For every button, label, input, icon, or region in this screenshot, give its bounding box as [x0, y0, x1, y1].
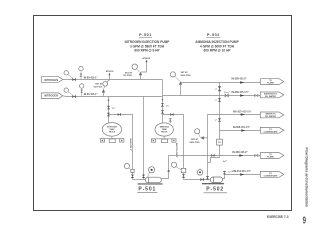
strainer box 1: [131, 169, 134, 172]
wire L1 drop to tank fill: [162, 80, 164, 123]
instrument PI-2: [64, 88, 73, 95]
nitrogen tank truck: [100, 123, 125, 143]
svg-text:FO: FO: [218, 142, 221, 144]
svg-text:DIL WATER: DIL WATER: [265, 95, 276, 98]
wire below strainer 2: [183, 173, 185, 180]
relief valve PSV-1 on L1: [123, 60, 148, 80]
ammonia tank truck: [151, 123, 176, 143]
title block P-501: [125, 32, 171, 52]
svg-text:1½": 1½": [112, 106, 116, 110]
svg-text:TRUCK: TRUCK: [161, 132, 168, 134]
svg-text:P-501: P-501: [138, 186, 156, 192]
valve on branch 2: [170, 113, 173, 116]
valve on tank drop 1a: [107, 106, 110, 109]
svg-text:DIL WATER: DIL WATER: [265, 115, 276, 118]
off-page connector NITROGEN 2: [41, 93, 63, 99]
wire pump1 discharge riser: [161, 156, 168, 179]
flow arrow R4: [241, 129, 245, 132]
svg-text:¾": ¾": [215, 88, 218, 91]
flow arrow R6: [240, 173, 244, 176]
drain dot on riser: [168, 170, 170, 172]
reducer before R2: [255, 94, 258, 97]
junction bead: [108, 99, 110, 101]
svg-text:2x1": 2x1": [223, 161, 227, 163]
svg-text:IN-308-415-2": IN-308-415-2": [232, 151, 247, 154]
svg-text:AM-213-415-1½": AM-213-415-1½": [232, 169, 251, 173]
instrument PI-1: [64, 71, 73, 78]
svg-text:150 PSIG: 150 PSIG: [123, 75, 132, 77]
connector WATER TO DIL WATER R3: [260, 112, 284, 118]
svg-text:5800 PSIG: 5800 PSIG: [181, 75, 192, 77]
connector TO CONDENSATE R6: [260, 172, 284, 178]
svg-text:FLARE: FLARE: [267, 156, 274, 159]
svg-text:1½": 1½": [166, 103, 170, 107]
svg-text:IN-80-415-1": IN-80-415-1": [84, 77, 98, 80]
valve at pump1 suction: [142, 175, 145, 178]
svg-text:WA-327-415-1½": WA-327-415-1½": [233, 109, 252, 113]
connector TO FLARE R5: [260, 153, 284, 159]
svg-text:ATMOS: ATMOS: [142, 57, 150, 60]
svg-text:IN-80-415-1": IN-80-415-1": [84, 93, 98, 96]
restriction orifice FO box: [217, 139, 223, 145]
tank2 second nozzle: [169, 118, 172, 123]
svg-text:600 RPM @ 8 HP: 600 RPM @ 8 HP: [134, 48, 160, 52]
flow arrow R1: [240, 81, 244, 84]
valve on flare line R5: [211, 154, 214, 157]
valve on tank drop 1b: [107, 113, 110, 116]
header valve b: [218, 98, 221, 101]
wire pump1 suction drop: [143, 97, 145, 180]
wire branch tank1 to pump1: [109, 115, 133, 180]
pump P-501: [138, 177, 163, 184]
svg-text:IN-308-415-1½": IN-308-415-1½": [232, 90, 249, 94]
wire main line L1: [63, 79, 163, 81]
header valve a: [218, 86, 221, 91]
flow arrow R2: [240, 94, 244, 97]
svg-text:P-501: P-501: [139, 32, 152, 37]
valve below strainer 2: [182, 174, 185, 177]
motor M-1: [147, 167, 154, 178]
wire branch tank2 to pump2: [163, 115, 184, 169]
valve V1 on L1: [72, 78, 76, 81]
svg-text:SET AT: SET AT: [95, 83, 103, 86]
svg-text:Flow Diagrams and Instrumentat: Flow Diagrams and Instrumentation: [305, 148, 309, 208]
svg-text:P-502: P-502: [207, 32, 220, 37]
connector TO CONDENSATE R4: [260, 127, 284, 133]
sheet border frame: [34, 16, 292, 211]
svg-text:CONDENSATE: CONDENSATE: [264, 175, 279, 178]
wire condensate line R4: [220, 130, 261, 132]
wire pump2 suction header: [184, 179, 211, 181]
wire drop to nitrogen tank truck: [108, 97, 110, 123]
svg-text:AM-213-415-1": AM-213-415-1": [175, 143, 178, 158]
svg-text:1½x¾": 1½x¾": [224, 90, 230, 94]
distribution header: [208, 83, 220, 163]
svg-text:NITROGEN: NITROGEN: [44, 78, 58, 82]
wire pump1 suction header: [133, 179, 146, 181]
svg-text:P-502: P-502: [206, 186, 224, 192]
svg-text:EXERCISE 7-3: EXERCISE 7-3: [267, 215, 289, 219]
pump label P-501: [137, 186, 157, 192]
svg-text:ATMOS: ATMOS: [106, 70, 114, 73]
svg-text:AMMONIA TO: AMMONIA TO: [264, 92, 277, 95]
instrument circle near strainer 2: [168, 162, 181, 172]
svg-text:SET AT: SET AT: [181, 71, 189, 74]
reducer on R2 line: [225, 94, 228, 97]
valve V2 on L2: [72, 95, 76, 98]
svg-text:9: 9: [303, 215, 307, 226]
wire water line R3: [208, 114, 261, 116]
pump label P-502: [204, 186, 228, 192]
relief valve PSV-3: [170, 71, 191, 95]
svg-text:WATER TO: WATER TO: [265, 112, 276, 115]
valve on tank drop 2b: [161, 110, 164, 113]
flow arrow R5: [239, 154, 243, 157]
motor M-2: [197, 170, 203, 176]
svg-text:SET AT: SET AT: [191, 138, 199, 141]
valve above pump1 suction: [131, 175, 134, 178]
reducer before R5: [255, 154, 258, 157]
svg-text:600 RPM @ 10 HP: 600 RPM @ 10 HP: [203, 48, 231, 52]
connector TO FLARE R1: [260, 79, 284, 85]
relief valve PSV-2 on L2: [93, 73, 110, 97]
svg-text:IN-308-415-1½": IN-308-415-1½": [233, 125, 250, 129]
svg-text:NITROGEN: NITROGEN: [44, 93, 58, 97]
wire to condensate connector R6: [225, 174, 261, 176]
instrument bubble on L1: [79, 66, 83, 79]
wire L2 extension to header: [163, 95, 261, 97]
header valve c: [218, 118, 221, 121]
valve on tank drop 2a: [161, 103, 164, 106]
pump P-502: [202, 177, 224, 184]
off-page connector NITROGEN 1: [41, 77, 63, 83]
instrument bubble on L2: [80, 84, 84, 97]
wire pump2 suction column: [207, 115, 209, 180]
svg-text:6400 PSIG: 6400 PSIG: [190, 141, 201, 144]
junction beads on tank2 fill drop: [162, 99, 164, 101]
wire flare line R1: [181, 82, 261, 84]
valve at pump2 column bottom: [206, 176, 209, 179]
instrument circle near strainer 1: [124, 164, 131, 170]
svg-text:150 PSIG: 150 PSIG: [93, 86, 102, 88]
valve on branch 1: [118, 113, 121, 116]
svg-text:IN-80-415-1": IN-80-415-1": [129, 138, 132, 151]
svg-text:SET AT: SET AT: [125, 71, 133, 74]
svg-text:TRUCK: TRUCK: [109, 132, 116, 134]
wire main line L2: [63, 95, 163, 98]
connector AMMONIA TO DIL WATER R2: [260, 92, 284, 98]
svg-text:¾": ¾": [215, 99, 218, 102]
svg-text:½": ½": [215, 118, 218, 122]
strainer box 2: [181, 168, 186, 172]
svg-text:CONDENSATE: CONDENSATE: [264, 130, 279, 133]
title block P-502: [195, 32, 239, 52]
wire pump2 discharge: [223, 175, 225, 179]
relief valve PSV-4: [190, 129, 208, 144]
flow arrow R3: [241, 113, 245, 116]
check valve on discharge: [223, 171, 226, 174]
valve at pump2 suction: [200, 178, 203, 181]
svg-text:FLARE: FLARE: [267, 82, 274, 85]
svg-text:IN-308-415-2": IN-308-415-2": [232, 78, 247, 81]
wire flare line R5: [169, 155, 261, 157]
